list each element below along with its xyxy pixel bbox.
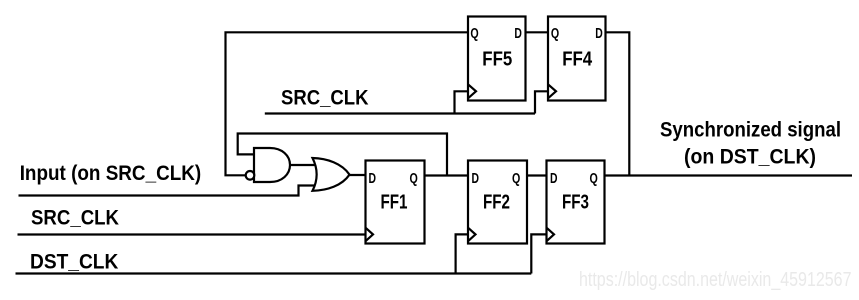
flip-flop FF5 box — [468, 17, 526, 101]
svg-text:SRC_CLK: SRC_CLK — [31, 206, 119, 230]
flip-flop FF1 box — [366, 161, 425, 244]
svg-text:Q: Q — [551, 26, 559, 42]
FF3 clock chevron — [547, 228, 555, 242]
svg-text:D: D — [472, 171, 480, 187]
svg-text:(on DST_CLK): (on DST_CLK) — [684, 145, 816, 169]
FF5 clock chevron — [468, 84, 476, 98]
FF2 clock chevron — [468, 228, 476, 242]
flip-flop FF2 box — [468, 161, 527, 244]
wire: FF4 D down to synchronized signal line — [606, 32, 630, 175]
wire: DST_CLK riser to FF3 clock — [531, 234, 546, 273]
svg-text:D: D — [514, 26, 522, 42]
wire: AND gate output to OR gate upper input — [290, 164, 317, 166]
or-gate O1 — [313, 158, 350, 191]
svg-text:D: D — [369, 171, 377, 187]
FF1 clock chevron — [366, 228, 374, 242]
svg-text:D: D — [595, 26, 603, 42]
wire: FF5 Q feedback to NAND-style inverted input — [226, 32, 469, 175]
wire: FF1 Q feedback to AND gate top input — [238, 134, 447, 176]
and-gate A1 with inverted lower input — [254, 148, 290, 182]
wire: riser to FF4 clock — [535, 91, 548, 113]
FF4 clock chevron — [548, 84, 556, 98]
wire: riser to FF5 clock — [455, 91, 469, 113]
svg-text:SRC_CLK: SRC_CLK — [281, 85, 369, 109]
svg-text:FF3: FF3 — [562, 191, 589, 213]
wire: top SRC_CLK line — [265, 112, 535, 114]
svg-text:D: D — [550, 171, 558, 187]
wire: synchronized signal output from FF3 Q — [605, 174, 853, 176]
svg-text:Q: Q — [470, 26, 478, 42]
svg-text:FF5: FF5 — [482, 48, 512, 70]
svg-text:Q: Q — [590, 171, 598, 187]
wire: OR gate output to FF1 D — [349, 174, 366, 176]
svg-text:Q: Q — [512, 171, 520, 187]
flip-flop FF4 box — [548, 17, 606, 101]
flip-flop FF3 box — [547, 161, 605, 244]
svg-text:FF1: FF1 — [381, 191, 408, 213]
wire: DST_CLK line — [16, 272, 532, 274]
svg-text:Input (on SRC_CLK): Input (on SRC_CLK) — [20, 161, 202, 185]
svg-text:FF2: FF2 — [483, 191, 510, 213]
inverter bubble on AND input — [246, 171, 255, 180]
wire: FF5 D to FF4 Q — [526, 31, 549, 33]
wire: FF1 Q to FF2 D — [425, 174, 469, 176]
svg-text:DST_CLK: DST_CLK — [30, 249, 119, 273]
svg-text:Synchronized signal: Synchronized signal — [660, 118, 841, 142]
svg-text:https://blog.csdn.net/weixin_4: https://blog.csdn.net/weixin_45912567 — [579, 269, 852, 291]
wire: lower SRC_CLK line to FF1 clock — [18, 233, 366, 235]
svg-text:FF4: FF4 — [562, 48, 593, 70]
wire: Input signal to OR gate lower input — [19, 186, 317, 196]
wire: FF2 Q to FF3 D — [527, 174, 547, 176]
svg-text:Q: Q — [410, 171, 418, 187]
wire: DST_CLK riser to FF2 clock — [456, 234, 468, 273]
